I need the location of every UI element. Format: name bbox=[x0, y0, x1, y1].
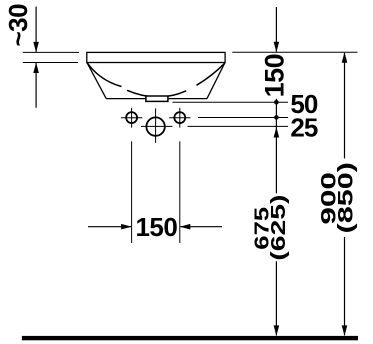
sink right slant wall bbox=[207, 63, 225, 99]
reference line center hole level left segment (center hole crosshair) bbox=[141, 125, 172, 127]
centerline of center hole bbox=[155, 108, 157, 143]
dim ~30 lower line bbox=[35, 63, 37, 108]
dim 675 upper arrowhead up bbox=[274, 127, 280, 138]
reference line small holes level bbox=[198, 117, 288, 119]
dim 150 horizontal right tail bbox=[180, 226, 222, 228]
dim ~30 upper line bbox=[35, 7, 37, 52]
extension line rim top left bbox=[23, 51, 79, 53]
dim line through dots bbox=[275, 99, 277, 194]
svg-text:150: 150 bbox=[135, 212, 177, 242]
left hole crosshair horizontal bbox=[121, 117, 142, 119]
dim 900 upper line bbox=[344, 53, 346, 158]
dot at drain level bbox=[274, 100, 279, 105]
dim 150 vertical upper line bbox=[275, 7, 277, 52]
dim 900 lower line bbox=[344, 237, 346, 335]
center hole circle bbox=[146, 117, 164, 135]
dot at small holes level bbox=[274, 115, 279, 120]
sink rim outline bbox=[87, 52, 225, 62]
dim 150 horizontal right arrowhead bbox=[180, 224, 191, 230]
reference line drain bottom level bbox=[173, 101, 289, 103]
dim 900 upper arrowhead up bbox=[342, 52, 348, 63]
right hole crosshair horizontal bbox=[169, 117, 190, 119]
dim ~30 lower arrowhead bbox=[33, 63, 39, 74]
extension line right hole down bbox=[179, 141, 181, 243]
reference line sink top level right bbox=[232, 51, 357, 53]
bowl curve right bbox=[197, 63, 225, 85]
dim 900 lower arrowhead down bbox=[342, 325, 348, 336]
extension line rim bottom left bbox=[23, 62, 78, 64]
dim 675 lower arrowhead down bbox=[274, 325, 280, 336]
sink left slant wall bbox=[87, 63, 106, 99]
left hole circle bbox=[126, 112, 137, 123]
extension line left hole down bbox=[131, 141, 133, 243]
svg-text:(625): (625) bbox=[267, 195, 290, 261]
svg-text:150: 150 bbox=[260, 54, 290, 98]
dim 150 vertical arrowhead down bbox=[274, 42, 280, 53]
right hole circle bbox=[174, 112, 185, 123]
svg-text:(850): (850) bbox=[333, 162, 357, 233]
left hole crosshair vertical bbox=[131, 108, 133, 128]
bowl curve middle bbox=[127, 90, 186, 97]
sink bottom edge bbox=[106, 98, 207, 100]
svg-text:25: 25 bbox=[290, 113, 317, 143]
drain rectangle bbox=[146, 96, 168, 101]
right hole crosshair vertical bbox=[179, 108, 181, 128]
bowl curve left bbox=[88, 63, 122, 86]
floor baseline bbox=[22, 336, 358, 340]
dim ~30 upper arrowhead bbox=[33, 42, 39, 53]
dim 150 horizontal left tail bbox=[88, 226, 131, 228]
svg-text:~30: ~30 bbox=[3, 4, 33, 47]
dim 150 horizontal left arrowhead bbox=[121, 224, 132, 230]
dim 675 lower line bbox=[275, 261, 277, 335]
reference line center hole level right segment bbox=[188, 125, 288, 127]
